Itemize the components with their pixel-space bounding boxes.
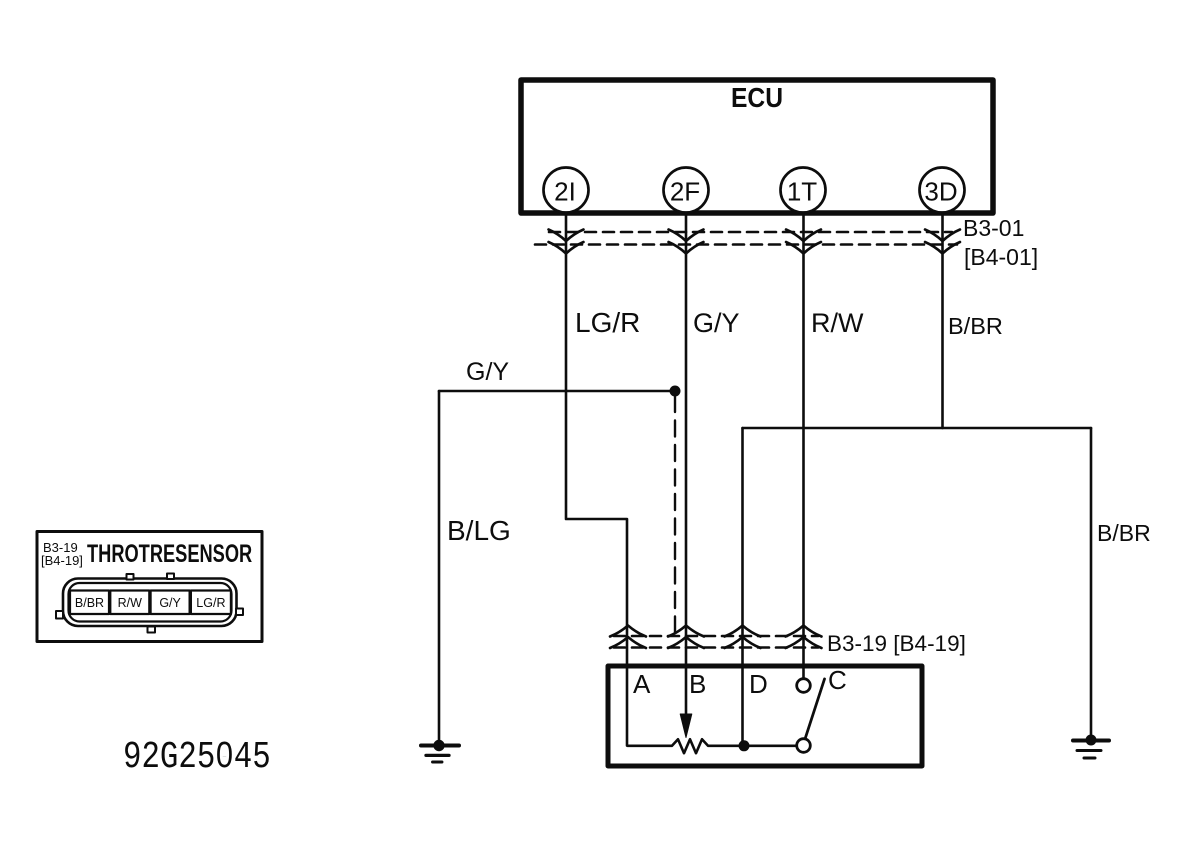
- svg-text:92G25045: 92G25045: [123, 736, 271, 779]
- connector B3-19 chevrons at terminal C wire: [786, 626, 822, 649]
- svg-text:G/Y: G/Y: [159, 596, 181, 610]
- pin 1T: [781, 168, 826, 213]
- connector B3-01 chevrons at pin 2I: [549, 230, 584, 254]
- connector B3-19 chevrons at terminal A wire: [610, 626, 646, 649]
- connector B3-19 chevrons at terminal D wire: [725, 626, 761, 649]
- switch terminal C contact circle: [797, 679, 811, 693]
- connector pin cavity G/Y: [151, 591, 190, 615]
- resistor track (potentiometer): [628, 739, 797, 753]
- svg-text:THROTRESENSOR: THROTRESENSOR: [87, 539, 252, 568]
- svg-text:ECU: ECU: [731, 82, 783, 114]
- connector B3-01 dashed line lower: [535, 243, 957, 246]
- ECU U1 box: [521, 80, 993, 213]
- svg-text:B/BR: B/BR: [75, 596, 104, 610]
- svg-text:LG/R: LG/R: [196, 596, 225, 610]
- svg-text:R/W: R/W: [811, 308, 864, 338]
- svg-text:3D: 3D: [924, 177, 957, 207]
- svg-text:G/Y: G/Y: [693, 308, 740, 338]
- wire B/BR drop to right ground: [1090, 428, 1093, 739]
- pin 2F: [664, 168, 709, 213]
- connector B3-01 dashed line upper: [549, 231, 952, 234]
- wire R/W from pin 1T to switch terminal C: [802, 213, 805, 678]
- connector body outer shell: [63, 579, 237, 627]
- svg-text:[B4-01]: [B4-01]: [964, 244, 1038, 270]
- dashed wiper link wire: [674, 396, 676, 632]
- connector tab top right: [167, 574, 174, 580]
- wire drop to sensor terminal D: [741, 428, 744, 746]
- connector B3-01 chevrons at pin 3D: [925, 230, 960, 254]
- svg-text:G/Y: G/Y: [466, 358, 509, 386]
- connector body inner shell: [69, 583, 232, 622]
- connector B3-19 chevrons at terminal B wire: [668, 626, 704, 649]
- wire B/BR from pin 3D: [941, 213, 944, 428]
- svg-text:D: D: [749, 669, 768, 699]
- ground left: [421, 740, 459, 762]
- svg-text:B3-19 [B4-19]: B3-19 [B4-19]: [827, 631, 966, 656]
- wire B/BR horizontal run: [743, 427, 1092, 430]
- connector pin cavity B/BR: [70, 591, 109, 615]
- wire B/LG down to left ground: [438, 391, 441, 744]
- connector tab left: [56, 611, 63, 619]
- wiper arrowhead: [680, 714, 692, 738]
- ground right: [1073, 735, 1109, 759]
- connector tab right: [236, 609, 243, 616]
- connector tab top left: [127, 574, 134, 580]
- node junction dot at terminal D: [739, 740, 750, 751]
- connector B3-01 chevrons at pin 2F: [669, 230, 704, 254]
- connector B3-19 dashed line upper: [614, 635, 818, 638]
- svg-text:R/W: R/W: [118, 596, 143, 610]
- svg-text:A: A: [633, 669, 651, 699]
- svg-text:B: B: [689, 669, 706, 699]
- throttle sensor box: [608, 666, 922, 766]
- node junction dot on G/Y: [670, 386, 681, 397]
- pin 2I: [544, 168, 589, 213]
- svg-text:LG/R: LG/R: [575, 307, 640, 338]
- wire G/Y branch horizontal: [439, 390, 675, 393]
- svg-text:B3-01: B3-01: [963, 215, 1024, 241]
- switch movable contact circle: [797, 739, 811, 753]
- connector pin cavity R/W: [110, 591, 149, 615]
- svg-text:C: C: [828, 665, 847, 695]
- connector B3-19 dashed line lower: [614, 646, 818, 649]
- svg-text:1T: 1T: [787, 177, 817, 207]
- connector tab bottom: [148, 627, 156, 633]
- svg-text:B/BR: B/BR: [1097, 520, 1151, 546]
- wire LG/R from pin 2I to sensor terminal A: [566, 213, 627, 746]
- connector view B3-19 THROTRESENSOR outer box: [37, 532, 262, 642]
- svg-text:B/BR: B/BR: [948, 313, 1003, 339]
- switch lever: [806, 679, 825, 738]
- svg-text:B/LG: B/LG: [447, 515, 511, 546]
- connector B3-01 chevrons at pin 1T: [786, 230, 821, 254]
- connector pin cavity LG/R: [191, 591, 231, 615]
- svg-text:2I: 2I: [554, 177, 576, 207]
- svg-text:[B4-19]: [B4-19]: [41, 553, 83, 568]
- wire G/Y from pin 2F down to wiper arrow: [685, 213, 688, 716]
- svg-text:2F: 2F: [670, 177, 700, 207]
- pin 3D: [920, 168, 965, 213]
